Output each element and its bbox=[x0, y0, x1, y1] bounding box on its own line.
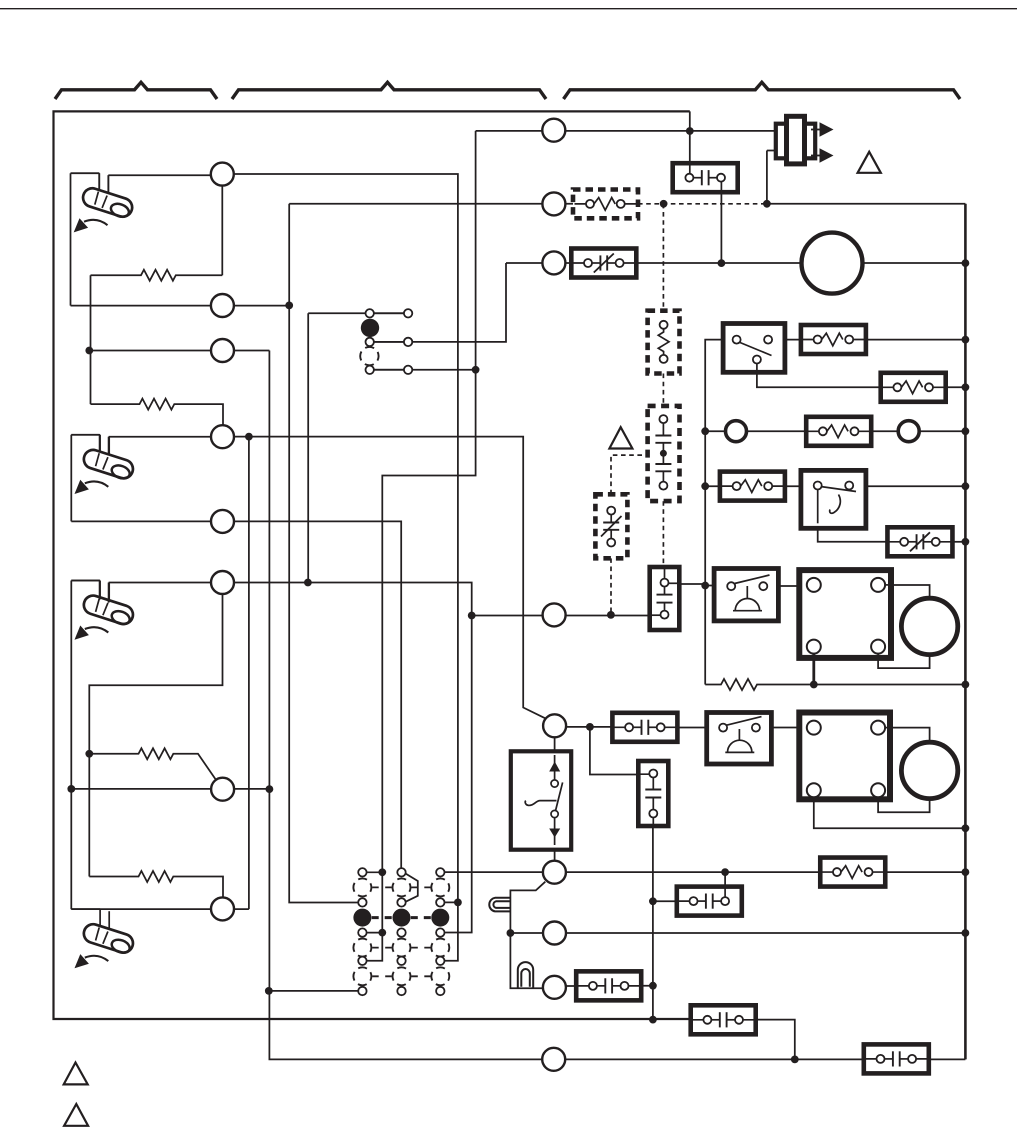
terminal C933 bbox=[543, 922, 566, 945]
terminal L1 bbox=[211, 163, 234, 186]
wire plug lower lead bbox=[767, 151, 779, 204]
wire C873 diagonal loop to lamp circuit bbox=[510, 882, 545, 989]
relay square S2 bbox=[799, 713, 890, 800]
junction (965.4,387.3) bbox=[962, 383, 970, 391]
terminal C1059 bbox=[542, 1048, 565, 1071]
matrix black positions row4 bbox=[353, 909, 449, 927]
terminal L3 bbox=[211, 339, 234, 362]
wire matrix col1 row5 stub bbox=[362, 932, 382, 934]
dashed wire B3 down to C616 line bbox=[610, 558, 612, 615]
junction (725.1,872.1) bbox=[721, 868, 729, 876]
note triangle bottom 1 bbox=[64, 1063, 88, 1085]
crossed contact box R5 bbox=[887, 527, 952, 556]
wire L4 line to x523 corner down to C726 bbox=[223, 437, 547, 719]
overload box R4 bbox=[720, 472, 785, 501]
wire x475 vertical with jog to x382 down to matrix col1 bbox=[362, 131, 475, 961]
resistor Rd line down to L8 top bbox=[89, 871, 223, 899]
wire x402 selector col2 bypass flag bbox=[406, 874, 418, 902]
wire vertical x269 L3 to bottom line y1059 bbox=[269, 351, 965, 1060]
wire vertical x90 resistor Ra to resistor Rb bbox=[90, 275, 92, 404]
matrix gang dashes row8 bbox=[372, 975, 430, 977]
junction (965.4,872.1) bbox=[962, 868, 970, 876]
junction (89.3,350.5) bbox=[85, 347, 93, 355]
junction (269.4,789.1) bbox=[266, 785, 274, 793]
terminal C262 bbox=[542, 251, 565, 274]
junction (663.6,203.8) bbox=[660, 200, 668, 208]
vertical contact box V1 bbox=[650, 567, 680, 630]
terminal L6 bbox=[211, 571, 234, 594]
wire compressor line C262 to bus bbox=[506, 262, 965, 264]
wire SPDT to overload R1 link bbox=[785, 339, 801, 341]
wire branch down to vertical contact V2 bbox=[590, 727, 640, 775]
matrix dashed positions row2 bbox=[353, 878, 449, 896]
wire contact C1 to defrost relay D2 bbox=[677, 727, 800, 729]
wire bulb3 top lead bbox=[71, 581, 99, 600]
overload box R2 bbox=[881, 373, 946, 402]
wire C204 line left bbox=[289, 203, 573, 205]
terminal C726 bbox=[543, 714, 566, 737]
wire top edge drop to DFT contact bbox=[689, 111, 691, 177]
contact box DFT (top) bbox=[673, 163, 738, 192]
fan speed switch box bbox=[511, 751, 571, 849]
indicator lamp 2 bbox=[518, 962, 533, 988]
junction (689.8,131) bbox=[686, 127, 694, 135]
dashed wire B3 up and over to B2 center bbox=[611, 455, 645, 494]
wire overload R4 row y486 bbox=[705, 485, 965, 487]
matrix dashed positions row8 bbox=[353, 967, 449, 985]
terminal C873 bbox=[543, 861, 566, 884]
junction (510.4,933) bbox=[507, 929, 515, 937]
junction (652.9,1019.6) bbox=[649, 1016, 657, 1024]
CB904 top entry stub bbox=[724, 887, 726, 897]
wire L1 to right column (node R) bbox=[222, 174, 458, 961]
wire CB904 left contact to x653 vertical bbox=[653, 900, 677, 902]
wire C726 to contact box C1 bbox=[555, 726, 614, 728]
wire S2 BL to bus bbox=[814, 799, 966, 828]
overload box R6 bbox=[820, 858, 885, 887]
ring terminal A bbox=[726, 421, 747, 442]
junction (705.2,486.2) bbox=[701, 482, 709, 490]
contact box CB1018 bbox=[691, 1005, 756, 1034]
wire L7 line bbox=[71, 788, 269, 790]
vertical contact box V2 bbox=[638, 761, 668, 826]
wire bulb2 right lead to L4 bbox=[109, 437, 223, 455]
wire x554 link C726 to fan switch to C873 bbox=[554, 736, 556, 862]
SPDT lower contact exit stub bbox=[756, 364, 758, 372]
overload box R3 bbox=[806, 417, 871, 446]
terminal C130 bbox=[542, 119, 565, 142]
wire L1 bottom to resistor Ra bbox=[221, 183, 223, 275]
matrix small contacts column 1 bbox=[358, 868, 366, 995]
junction (766.9,203.8) bbox=[763, 200, 771, 208]
selector cluster pin pair row3 bbox=[366, 366, 413, 374]
dashed wire B2 to vertical contact V1 bbox=[662, 501, 664, 566]
wire fan circuit y872 row bbox=[440, 871, 965, 873]
junction (475.6,369.8) bbox=[472, 366, 480, 374]
terminal L4 bbox=[211, 425, 234, 448]
junction (471.7,615.5) bbox=[468, 612, 476, 620]
dashed wire from dashed overload A to plug junction bbox=[638, 203, 767, 205]
wire crossed contact R5 to bus bbox=[952, 541, 965, 543]
matrix gang dashes row4 bbox=[372, 916, 431, 919]
wire SPDT lower contact to overload R2 bbox=[757, 361, 881, 387]
wire y131 line C130 to plug bbox=[476, 130, 779, 132]
wire S1 BL stub to resistor line bbox=[812, 658, 815, 685]
dashed box B2 double contact bbox=[648, 406, 680, 501]
wire node W line from C204 corner down to matrix col1 row3 bbox=[289, 204, 362, 903]
wire solid after dashed junction to bus corner bbox=[767, 203, 966, 205]
fan motor circle M1 bbox=[901, 598, 957, 654]
terminal L7 bbox=[211, 778, 234, 801]
junction (965.4,431.2) bbox=[962, 427, 970, 435]
V1 bottom-left entry stub bbox=[651, 614, 661, 616]
V1 top stub bbox=[664, 568, 666, 579]
dashed overload box A bbox=[573, 190, 638, 219]
junction (965.4,486.2) bbox=[962, 482, 970, 490]
wire overload R2 to bus bbox=[946, 386, 966, 388]
junction (71.3,788.9) bbox=[67, 785, 75, 793]
resistor Re line to bus bbox=[705, 679, 965, 690]
wire selector left vertical x308 bbox=[307, 313, 309, 582]
wire L3 line bbox=[89, 350, 269, 352]
resistor Rc line with diagonal to L7 bbox=[89, 748, 216, 780]
dashed wire x663 down to dashed box B1 bbox=[662, 204, 664, 311]
matrix gang dashes row6 bbox=[372, 947, 430, 949]
note triangle near plug bbox=[858, 152, 881, 173]
wire ring terminals row y431 bbox=[705, 430, 965, 432]
junction (248.9,436.6) bbox=[245, 433, 253, 441]
top rule bbox=[0, 8, 1017, 10]
relay square S1 bbox=[799, 570, 891, 658]
resistor Rb line bbox=[91, 399, 224, 427]
resistor Ra line bbox=[91, 270, 223, 281]
junction (794.8,1059.4) bbox=[791, 1056, 799, 1064]
junction (382.3,872.3) bbox=[378, 868, 386, 876]
matrix gang dashes row2 bbox=[372, 886, 430, 888]
junction (705.2,585.5) bbox=[701, 582, 709, 590]
junction (610.9,614.9) bbox=[607, 611, 615, 619]
fan motor circle M2 bbox=[901, 742, 957, 798]
wire D2 left from vertical contact V2... none; S2 TR to motor2 bbox=[890, 728, 930, 743]
wire x653 vertical bbox=[652, 826, 654, 1020]
wire C616 line bbox=[472, 615, 650, 617]
V1 top contact right exit stub bbox=[669, 582, 679, 584]
wire C262 corner down to selector row2 bbox=[370, 263, 506, 342]
junction (965.4,541.8) bbox=[962, 538, 970, 546]
terminal L2 bbox=[211, 294, 234, 317]
wire vertical contact V1 to D1 junction bbox=[678, 583, 705, 585]
junction (457.9,902.4) bbox=[454, 899, 462, 907]
contact box CB985 bbox=[576, 971, 641, 1000]
wire L2 line bbox=[71, 305, 290, 307]
wire matrix col1 row9 line bbox=[269, 990, 363, 992]
wire selector row1 line bbox=[308, 312, 408, 314]
contact box C1 bbox=[612, 713, 677, 742]
thermostat mercury bulb 4 bbox=[71, 909, 135, 968]
terminal C987 bbox=[543, 976, 566, 999]
terminal L5 bbox=[211, 510, 234, 533]
wire S1 BR to motor1 bottom bbox=[878, 655, 930, 669]
system switch matrix bbox=[353, 868, 449, 995]
thermal switch box bbox=[801, 470, 866, 528]
matrix small contacts column 2 bbox=[397, 868, 405, 995]
selector cluster pin pair row1 bbox=[366, 309, 413, 317]
right bus wire bbox=[964, 204, 967, 1060]
wire bulb1 right lead to terminal L1 bbox=[108, 175, 222, 193]
junction (589.9,726.9) bbox=[586, 723, 594, 731]
wire L6 bottom loop to resistor Rc level bbox=[89, 593, 222, 877]
wire L5 line to x401 down to matrix col2 top bbox=[71, 521, 401, 872]
junction (965.4,263.1) bbox=[962, 259, 970, 267]
defrost relay box D2 bbox=[707, 713, 772, 765]
junction (813.8,684.5) bbox=[810, 681, 818, 689]
matrix small contacts column 3 bbox=[436, 868, 444, 995]
junction (289.2,305.4) bbox=[285, 302, 293, 310]
ring terminal B bbox=[898, 421, 919, 442]
brace 1 bbox=[55, 82, 217, 99]
thermostat mercury bulb 3 bbox=[71, 581, 135, 640]
wire bulb3 left vertical bbox=[70, 581, 72, 910]
DFT vertical stubs bbox=[690, 164, 722, 192]
dashed wire B1 to B2 bbox=[662, 374, 664, 406]
terminal L8 bbox=[211, 897, 234, 920]
wire S2 BR to motor2 bottom bbox=[878, 799, 930, 813]
junction (965.4,684.5) bbox=[962, 681, 970, 689]
note triangle bottom 2 bbox=[64, 1104, 88, 1126]
wire matrix col1 row1 stub bbox=[362, 871, 382, 873]
junction (721.4,263.1) bbox=[718, 259, 726, 267]
wire stub dot to CB904 right contact bbox=[724, 872, 726, 901]
thermostat mercury bulb 1 bbox=[71, 173, 135, 232]
wire defrost relay D1 left bbox=[705, 585, 714, 587]
wire DFT right contact down to compressor line bbox=[720, 178, 722, 263]
wire selector row3 line bbox=[370, 369, 476, 371]
selector cluster pin pair row2 bbox=[366, 338, 413, 346]
wire branch x249 from L4 line down to L8 bbox=[248, 437, 250, 909]
junction (965.4,828.3) bbox=[962, 824, 970, 832]
contact box CB904 bbox=[677, 887, 742, 916]
wire C933 row bbox=[510, 932, 965, 934]
terminal C204 bbox=[542, 192, 565, 215]
junction (705.2,431.2) bbox=[701, 427, 709, 435]
junction (652.9,901.3) bbox=[649, 897, 657, 905]
note triangle mid bbox=[609, 427, 632, 448]
wire overload R1 to bus bbox=[866, 339, 966, 341]
wire bulb1 left vertical to L2 line bbox=[70, 173, 72, 305]
V2 entry and exit stubs bbox=[640, 774, 653, 825]
selector cluster black position bbox=[361, 319, 379, 337]
wire thermostat bulb1 top-left lead bbox=[71, 173, 100, 190]
wire L8 line bbox=[71, 908, 249, 910]
junction (307.9,582.5) bbox=[304, 579, 312, 587]
junction (268.8,990.9) bbox=[265, 987, 273, 995]
matrix dashed positions row6 bbox=[353, 939, 449, 957]
wire L6 line to x471 corner down to matrix col3 row5 bbox=[223, 583, 472, 933]
indicator lamp 1 bbox=[489, 898, 511, 912]
wire thermal switch drop to crossed contact R5 bbox=[818, 489, 888, 542]
wire matrix col3 row7 bypass... col3 row5 handled; selector row links bbox=[374, 313, 405, 370]
dashed box B3 crossed contact bbox=[595, 494, 627, 558]
junction (965.4,933) bbox=[962, 929, 970, 937]
wire C987 to contact CB985 bbox=[554, 985, 653, 987]
contact box CB1059 bbox=[864, 1044, 929, 1073]
outer enclosure box bbox=[54, 111, 692, 1019]
brace 3 bbox=[564, 82, 961, 99]
overload box R1 bbox=[801, 325, 866, 354]
wire bulb2 left vertical bbox=[70, 435, 72, 522]
brace 2 bbox=[232, 82, 546, 99]
crossed contact box HPS bbox=[571, 249, 636, 278]
defrost relay box D1 bbox=[714, 569, 778, 621]
quick-connect plug bbox=[776, 116, 834, 164]
wire S1 TR to motor1 bbox=[891, 585, 930, 598]
dashed box B1 vertical overload bbox=[648, 311, 680, 374]
terminal C616 bbox=[543, 603, 566, 626]
junction (965.4,339.6) bbox=[962, 336, 970, 344]
SPDT switch box bbox=[723, 324, 785, 373]
thermostat mercury bulb 2 bbox=[71, 435, 135, 494]
wire bulb2 top lead bbox=[71, 435, 99, 452]
wire bulb3 right lead to L6 bbox=[109, 583, 223, 603]
selector cluster dashed position bbox=[360, 347, 378, 365]
wire SPDT switch left corner and x705 vertical bbox=[705, 340, 723, 685]
compressor motor circle bbox=[802, 233, 863, 294]
junction (652.9,985.7) bbox=[649, 982, 657, 990]
wire bottom contact CB1018 out to y1059 line bbox=[755, 1020, 795, 1060]
junction (382.3,932.6) bbox=[378, 929, 386, 937]
wire D1 to square S1 bbox=[778, 585, 799, 587]
internal wall stubs of contact boxes bbox=[573, 164, 951, 1059]
junction (89.3,753.8) bbox=[85, 750, 93, 758]
wire matrix col3 row3 to node R vertical bbox=[440, 901, 458, 903]
